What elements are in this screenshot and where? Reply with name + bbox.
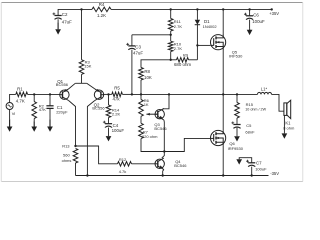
svg-text:BC556: BC556 [56, 82, 69, 87]
wire R11 to R10 [170, 31, 172, 41]
wire R8 top lead (output line to node A) [141, 60, 171, 68]
wire L1 to speaker [237, 93, 258, 95]
wire Q2 emitter to rail [87, 83, 95, 89]
wire -35V bottom rail [76, 175, 269, 177]
svg-text:L1*: L1* [261, 86, 268, 91]
junction Q4 emitter / -35V rail [162, 174, 164, 176]
capacitor C2 [55, 15, 62, 17]
wire Vi to ground [9, 110, 11, 120]
capacitor C5 [233, 124, 240, 126]
svg-text:R12: R12 [119, 157, 127, 162]
wire R8 bottom lead [140, 80, 142, 94]
wire R11 top lead [170, 9, 172, 18]
wire C1 to ground [49, 108, 51, 119]
junction output line / Q3 collector [168, 93, 170, 95]
page border frame [2, 2, 303, 4]
svg-text:4.7K: 4.7K [16, 98, 25, 103]
wire C2 to ground [57, 19, 59, 22]
svg-text:BC546: BC546 [154, 126, 167, 131]
svg-text:C5: C5 [246, 123, 252, 128]
svg-text:+35V: +35V [269, 11, 279, 16]
capacitor C7 [248, 162, 255, 164]
wire R6 top lead [140, 94, 142, 99]
wire C7 top lead with ground arm [239, 158, 252, 163]
svg-text:C3: C3 [135, 44, 141, 49]
svg-text:Vi: Vi [12, 111, 16, 116]
junction node A (R10/R9/R8) [170, 59, 172, 61]
svg-text:15K: 15K [84, 64, 91, 69]
wire R7 bottom to bias bottom node [141, 139, 164, 152]
wire C1 top lead [49, 94, 51, 105]
ground at C2 [57, 22, 59, 29]
inductor L1 [258, 92, 272, 94]
wire R9 to D1 column [189, 59, 198, 61]
source Vi (signal input) [6, 103, 13, 110]
svg-text:R1: R1 [17, 86, 23, 91]
svg-text:100uF: 100uF [255, 167, 267, 172]
wire Q3 emitter down to bias bottom node [163, 120, 165, 152]
ground at speaker [283, 132, 285, 134]
wire R3 bottom lead to emitter rail [81, 74, 83, 83]
svg-text:-35V: -35V [270, 171, 279, 176]
svg-text:1K: 1K [144, 102, 149, 107]
ground at Vi [9, 119, 11, 126]
wire C6 to ground [249, 20, 251, 29]
resistor R10 [168, 41, 173, 51]
transistor Q4 BC546 [155, 159, 164, 168]
svg-text:8 ohm: 8 ohm [283, 125, 295, 130]
wire Q4 emitter to -35V rail [163, 170, 164, 176]
wire R14 top lead [108, 94, 110, 105]
svg-text:C6: C6 [253, 13, 259, 18]
wire speaker to ground [283, 115, 285, 133]
svg-text:IRF530: IRF530 [229, 54, 243, 59]
resistor R12 [118, 162, 132, 167]
wire D1 anode lead [196, 9, 198, 19]
wire R2 top lead [33, 94, 35, 101]
small ground at C7 [238, 158, 240, 160]
wire R10 bottom lead [170, 52, 172, 60]
wire Q6 source to output line [222, 94, 224, 130]
svg-text:R8: R8 [144, 69, 150, 74]
svg-text:10K: 10K [144, 75, 152, 80]
junction top rail / R3 [80, 8, 82, 10]
wire Q4 collector up to bias bottom node [162, 152, 165, 159]
ground at C1 [49, 119, 51, 126]
svg-text:BC546: BC546 [174, 163, 187, 168]
ground at C4 [108, 134, 110, 137]
svg-text:47K: 47K [39, 107, 46, 112]
svg-text:47uF: 47uF [62, 20, 72, 25]
transistor Q6 IRF9530 (P-channel MOSFET) [211, 130, 226, 145]
junction top rail / Q5 drain [222, 8, 224, 10]
junction Q6 drain / -35V rail [222, 174, 224, 176]
trimpot R6 wiper arrow [146, 113, 149, 116]
junction Q2 base / R14 [107, 93, 109, 95]
wire bootstrap C3 to R10/R11 midpoint [132, 34, 171, 36]
speaker K1 [284, 103, 287, 116]
svg-text:IRF9530: IRF9530 [228, 146, 244, 151]
capacitor C6 [246, 15, 253, 17]
svg-text:2.7K: 2.7K [174, 46, 183, 51]
svg-text:R13: R13 [62, 144, 70, 149]
wire Q6 drain to -35V rail [222, 146, 224, 176]
resistor R11 [168, 19, 173, 31]
svg-text:1.2K: 1.2K [97, 13, 106, 18]
resistor R5 [112, 92, 123, 97]
svg-text:2.7K: 2.7K [174, 24, 183, 29]
svg-text:BC556: BC556 [92, 106, 105, 111]
resistor R15 [235, 103, 240, 119]
wire C5 to ground [236, 128, 238, 137]
wire R14 to C4 [108, 118, 110, 124]
wire to Q5 gate [197, 44, 210, 46]
resistor R2 [32, 102, 37, 119]
diode D1 1N4002 [195, 20, 200, 25]
svg-text:C2: C2 [62, 12, 68, 17]
resistor R13 [73, 149, 78, 164]
junction output line / R15 [236, 93, 238, 95]
wire R12 to Q4 base [132, 163, 156, 165]
svg-text:R5: R5 [114, 85, 120, 90]
svg-text:820 ohm: 820 ohm [142, 134, 158, 139]
wire R1 to Q1 base [28, 93, 60, 95]
junction Q5 gate node [196, 44, 198, 46]
svg-text:680 ohm: 680 ohm [174, 62, 191, 67]
ground at R2 [33, 121, 35, 126]
svg-text:C7: C7 [256, 161, 262, 166]
transistor Q3 BC546 [155, 110, 164, 119]
transistor Q1 BC556 [60, 90, 69, 99]
wire output line [132, 93, 237, 95]
wire bias bottom node to Q6 gate [164, 138, 210, 151]
svg-text:4.7k: 4.7k [119, 169, 127, 174]
junction Q2 collector / -35V rail [86, 174, 88, 176]
capacitor C4 [105, 123, 112, 125]
wire R15 to C5 [236, 118, 238, 125]
resistor R14 [106, 105, 111, 118]
trimpot R6 1K [139, 100, 144, 117]
wire C3 bottom lead to output line [131, 50, 133, 95]
wire Vi to R1 [10, 94, 16, 102]
wire R15 top lead [236, 94, 238, 102]
wire C3 top lead [131, 35, 133, 46]
wire emitter rail Q1-Q2 [75, 82, 86, 84]
ground at C6 [249, 29, 251, 30]
wire top rail +35V segment (R4 to +35V end) [111, 8, 272, 10]
node +35V rail end [271, 8, 273, 10]
junction output line / C3 [131, 93, 133, 95]
junction Q1 collector / R13 [74, 145, 76, 147]
junction input line / R2 [33, 93, 35, 95]
resistor R3 [79, 60, 84, 75]
wire node A to R9 [171, 59, 177, 61]
wire R13 bottom lead [75, 163, 77, 176]
svg-text:560: 560 [63, 152, 70, 157]
wire Q3 collector to output line [162, 94, 169, 110]
junction bias bottom node (Q3 emitter / Q4 collector / Q6 gate) [163, 150, 165, 152]
wire Q1 emitter to rail [69, 83, 76, 89]
wire R2 to ground [33, 119, 35, 122]
svg-text:2.2K: 2.2K [112, 111, 121, 116]
wire C7 bottom to -35V rail [251, 167, 253, 176]
wire D1 cathode down to node A [196, 25, 198, 60]
wire Q2 collector down to -35V rail [87, 101, 94, 176]
svg-text:100uF: 100uF [112, 128, 125, 133]
wire R6 to R7 [140, 116, 142, 123]
svg-text:R15: R15 [246, 102, 254, 107]
junction input line / C1 [49, 93, 51, 95]
svg-text:1N4002: 1N4002 [203, 24, 218, 29]
resistor R8 [139, 68, 144, 81]
resistor R4 [92, 7, 111, 12]
ground at C5 [236, 135, 238, 137]
svg-text:68nF: 68nF [245, 129, 255, 134]
wire R3 top lead [81, 9, 83, 59]
junction C7 / -35V rail [251, 174, 253, 176]
svg-text:R9: R9 [183, 53, 189, 58]
wire Q1 collector horizontal to R12 branch [76, 146, 118, 164]
junction output line / R8 / R6 [140, 93, 142, 95]
resistor R7 [139, 123, 144, 138]
wire top rail left segment (C2 corner to R4) [58, 9, 92, 15]
wire Q5 drain to +35V rail [222, 9, 224, 34]
svg-text:47uF: 47uF [133, 51, 143, 56]
svg-text:ohms: ohms [62, 158, 72, 163]
wire C6 top lead [249, 9, 251, 15]
wire C4 to ground [108, 128, 110, 136]
junction output line / Q5 source / Q6 source [222, 93, 224, 95]
transistor Q5 IRF530 (N-channel MOSFET) [211, 35, 226, 50]
resistor R9 [177, 58, 189, 63]
wire Q1 collector down to R13 [69, 101, 76, 147]
transistor Q2 BC556 [94, 90, 103, 99]
svg-text:R4: R4 [99, 2, 105, 7]
resistor R1 [16, 92, 28, 97]
capacitor C1 [46, 105, 53, 107]
junction top rail / R11 [170, 8, 172, 10]
svg-text:10 ohm / 2W: 10 ohm / 2W [245, 107, 266, 111]
junction top rail / D1 [196, 8, 198, 10]
svg-text:220pF: 220pF [56, 110, 68, 115]
svg-text:100uF: 100uF [252, 19, 265, 24]
junction bootstrap node (C3 to R10/R11) [170, 34, 172, 36]
wire R5 to output line [122, 93, 131, 95]
svg-text:47k: 47k [112, 97, 120, 102]
junction top rail / C6 [248, 8, 250, 10]
wire Q2 base to R5 [104, 93, 112, 95]
capacitor C3 body [128, 45, 135, 47]
wire Q5 source to output line [222, 50, 224, 94]
